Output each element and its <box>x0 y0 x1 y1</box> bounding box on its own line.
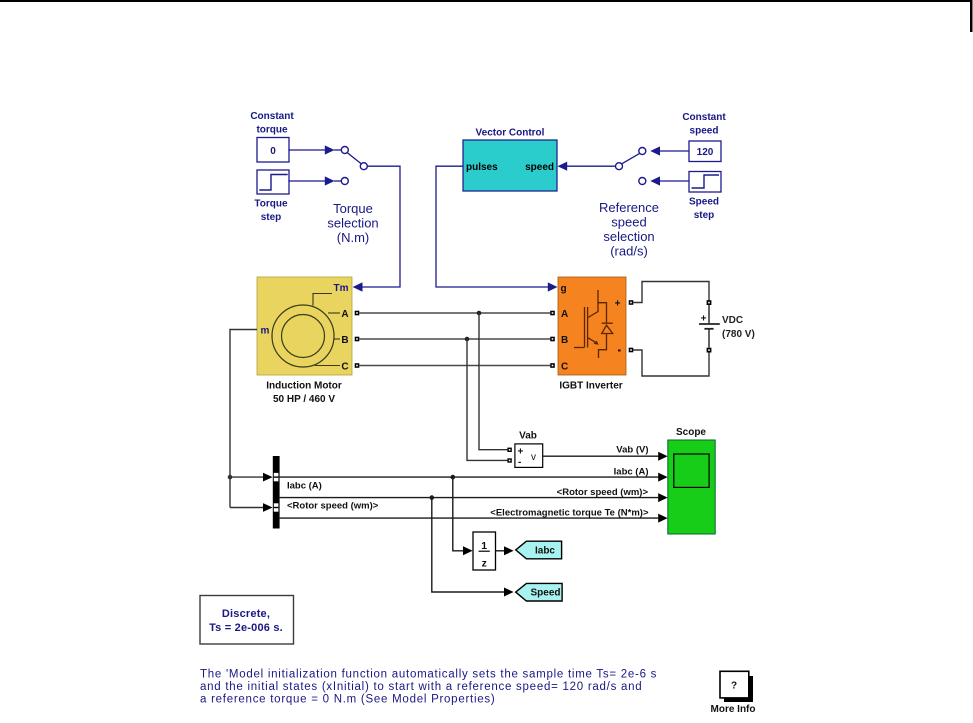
G8: bus selector + unit delay + goto tags <box>273 456 659 601</box>
vab block <box>515 444 543 468</box>
wire battery to inverter minus <box>633 350 709 376</box>
constant block 120 <box>689 141 721 162</box>
svg-text:selection: selection <box>603 229 654 244</box>
wire switch to speed port <box>558 162 568 171</box>
switch lever <box>347 153 361 164</box>
svg-text:A: A <box>341 309 348 320</box>
G6: dc source VDC <box>633 282 754 377</box>
vab plus port square <box>507 448 511 452</box>
battery symbol <box>708 305 710 323</box>
port C <box>315 365 340 367</box>
wire 120 to switch input 1 <box>660 150 689 152</box>
svg-text:speed: speed <box>690 126 719 137</box>
svg-text:step: step <box>261 212 282 223</box>
svg-text:Vab: Vab <box>519 431 537 442</box>
svg-text:The 'Model initialization func: The 'Model initialization function autom… <box>200 669 657 681</box>
phase B wire <box>359 338 550 340</box>
wire m branch to bus input 2 <box>230 507 264 509</box>
svg-text:1: 1 <box>481 540 487 552</box>
svg-text:+: + <box>701 314 707 325</box>
svg-text:C: C <box>561 362 568 373</box>
svg-text:More Info: More Info <box>711 704 756 715</box>
junction m branch <box>228 475 233 480</box>
svg-text:Ts = 2e-006 s.: Ts = 2e-006 s. <box>209 622 283 634</box>
wire unit delay to Iabc tag <box>496 550 505 552</box>
switch input circle 1 <box>639 148 646 155</box>
vab minus port square <box>507 458 511 462</box>
bus selector bar <box>273 456 280 529</box>
battery bottom port square <box>707 348 712 353</box>
vector control block <box>463 140 557 191</box>
frame top border <box>0 0 972 2</box>
G3: speed reference group <box>599 112 726 259</box>
wire m branch to bus input 1 <box>230 476 264 478</box>
svg-text:g: g <box>561 284 567 295</box>
bus output 1 Iabc <box>280 476 659 478</box>
phase A wire <box>359 312 550 314</box>
scope arrows 2-4 <box>658 473 667 482</box>
svg-text:and the initial states (xIniti: and the initial states (xInitial) to sta… <box>200 681 642 693</box>
discrete powergui block <box>200 596 294 645</box>
tap wire B to Vab minus <box>467 339 508 460</box>
switch lever <box>622 153 640 163</box>
wire speed tap to Speed tag <box>432 498 505 592</box>
svg-text:z: z <box>482 558 487 570</box>
junction A tap <box>477 311 482 316</box>
port A <box>328 312 340 314</box>
svg-text:Vector Control: Vector Control <box>476 128 545 139</box>
G2: vector control <box>436 128 616 292</box>
Tm input arrowhead <box>353 282 363 291</box>
svg-text:torque: torque <box>256 125 288 136</box>
svg-text:120: 120 <box>697 147 714 158</box>
svg-text:selection: selection <box>327 216 378 231</box>
svg-text:+: + <box>518 447 524 458</box>
svg-text:-: - <box>518 457 521 468</box>
motor outer circle <box>272 305 334 367</box>
port C input square <box>550 363 555 368</box>
switch input circle 2 <box>639 178 646 185</box>
more info block <box>720 671 749 698</box>
svg-text:Vab (V): Vab (V) <box>616 445 648 456</box>
svg-text:speed: speed <box>525 162 554 173</box>
wire switch to Tm <box>362 166 400 287</box>
bus port mark 2 <box>274 503 279 511</box>
wire Iabc tap to unit delay <box>453 477 464 551</box>
svg-text:Induction Motor: Induction Motor <box>266 381 342 392</box>
svg-text:B: B <box>561 335 568 346</box>
switch input circle 2 <box>341 178 348 185</box>
igbt icon <box>574 290 613 358</box>
svg-text:+: + <box>615 299 621 310</box>
bus output 3 torque <box>280 517 659 519</box>
svg-text:Constant: Constant <box>682 112 726 123</box>
igbt inverter block <box>558 277 626 375</box>
svg-text:(rad/s): (rad/s) <box>610 244 648 259</box>
svg-text:step: step <box>694 210 715 221</box>
goto tag Speed <box>516 583 562 601</box>
svg-text:Reference: Reference <box>599 200 659 215</box>
svg-text:50 HP / 460 V: 50 HP / 460 V <box>273 394 335 405</box>
battery top port square <box>707 300 712 305</box>
bus output 2 rotor speed <box>280 497 659 499</box>
wire inverter plus to battery <box>633 282 709 303</box>
svg-text:Iabc: Iabc <box>535 545 555 556</box>
junction speed tap <box>430 495 435 500</box>
wire constant to switch input 1 <box>289 149 325 151</box>
svg-text:pulses: pulses <box>466 162 498 173</box>
junction Iabc tap <box>451 475 456 480</box>
Tm connector line <box>313 294 332 306</box>
torque step block <box>257 170 289 194</box>
phase C wire <box>359 365 550 367</box>
svg-text:VDC: VDC <box>722 315 743 326</box>
bus port mark 1 <box>274 473 279 481</box>
speed step block <box>689 172 721 193</box>
svg-text:(780 V): (780 V) <box>722 329 755 340</box>
svg-text:Tm: Tm <box>334 283 349 294</box>
more info shadow <box>724 676 753 702</box>
G7: vab measurement + scope <box>490 427 715 534</box>
svg-text:Iabc (A): Iabc (A) <box>614 466 649 477</box>
wire step to switch input 2 <box>289 180 325 182</box>
svg-text:Constant: Constant <box>250 111 294 122</box>
svg-text:Torque: Torque <box>333 201 373 216</box>
svg-text:B: B <box>341 335 348 346</box>
constant block 0 <box>257 138 289 163</box>
G1: torque selection group <box>250 111 400 292</box>
svg-text:Scope: Scope <box>676 427 706 438</box>
svg-text:IGBT Inverter: IGBT Inverter <box>559 381 622 392</box>
svg-text:<Electromagnetic torque Te (N*: <Electromagnetic torque Te (N*m)> <box>490 507 649 518</box>
switch output circle <box>616 163 623 170</box>
svg-text:m: m <box>261 326 270 337</box>
svg-text:Torque: Torque <box>254 199 288 210</box>
motor inner circle <box>282 315 325 358</box>
frame right border <box>970 0 973 32</box>
svg-text:?: ? <box>731 681 737 692</box>
tap wire A to Vab plus <box>479 313 508 450</box>
svg-text:Speed: Speed <box>689 197 719 208</box>
wire pulses to g <box>436 166 548 287</box>
port A input square <box>550 311 555 316</box>
svg-text:Iabc (A): Iabc (A) <box>287 481 322 492</box>
svg-text:(N.m): (N.m) <box>337 230 370 245</box>
wire vab to scope 1 <box>543 455 659 457</box>
svg-text:<Rotor speed (wm)>: <Rotor speed (wm)> <box>287 501 379 512</box>
svg-text:v: v <box>531 452 536 463</box>
svg-text:C: C <box>341 362 348 373</box>
svg-text:A: A <box>561 309 568 320</box>
junction B tap <box>465 337 470 342</box>
igbt emitter arrowhead <box>594 341 599 345</box>
svg-text:speed: speed <box>611 215 646 230</box>
svg-text:a reference torque = 0 N.m (Se: a reference torque = 0 N.m (See Model Pr… <box>200 694 495 706</box>
port minus dot <box>618 350 621 352</box>
svg-text:0: 0 <box>270 146 276 157</box>
unit delay block 1/z <box>473 532 496 570</box>
induction motor block <box>257 277 352 375</box>
svg-text:Discrete,: Discrete, <box>222 608 270 620</box>
svg-text:<Rotor speed (wm)>: <Rotor speed (wm)> <box>557 487 649 498</box>
port B <box>334 338 340 340</box>
switch input circle 1 <box>341 147 348 154</box>
scope block <box>668 440 715 534</box>
wire m to bus <box>230 330 257 508</box>
svg-text:Speed: Speed <box>530 588 560 599</box>
G5: igbt inverter <box>359 277 633 460</box>
G4: induction motor <box>228 277 363 512</box>
goto tag Iabc <box>516 541 562 559</box>
scope screen <box>674 454 709 487</box>
wire speed step to switch input 2 <box>660 180 689 182</box>
port B input square <box>550 337 555 342</box>
G9: annotations <box>200 596 756 716</box>
switch output circle <box>360 163 367 170</box>
